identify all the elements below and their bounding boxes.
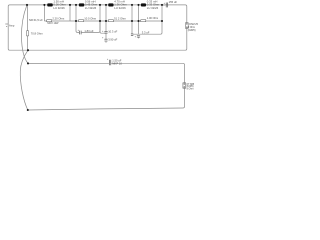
wire long curved return bottom rail to lower loop	[20, 50, 28, 110]
wire outer loop upper circuit	[8, 5, 187, 50]
svg-text:3.3 uF: 3.3 uF	[142, 30, 150, 34]
wire long curved feed upper node A to lower loop	[21, 5, 28, 64]
resistor R5 shunt left	[27, 31, 29, 36]
wire notch loop section4 left lead	[131, 21, 133, 34]
svg-text:1.00 Ohm: 1.00 Ohm	[147, 16, 158, 20]
node dot rail2 x132	[131, 20, 133, 22]
label C5	[164, 0, 178, 5]
capacitor C3b shunt section3	[104, 39, 107, 41]
node dot x76	[75, 4, 77, 6]
wire top rail	[27, 4, 165, 6]
node dot rail2 x100	[99, 20, 101, 22]
node dot x132	[131, 4, 133, 6]
wire vertical bridge x132	[131, 5, 133, 21]
wire lower loop top	[28, 63, 185, 82]
capacitor C2 notch section2	[80, 31, 82, 35]
capacitor C6 lower loop	[109, 60, 110, 66]
svg-text:10.3 uF: 10.3 uF	[108, 29, 117, 33]
node A dot top rail x27	[26, 4, 28, 6]
label SP1	[188, 23, 199, 32]
label SP2	[186, 84, 194, 91]
wire notch loop section4	[133, 21, 162, 38]
inductor L1	[47, 3, 53, 6]
svg-text:3.90 uF: 3.90 uF	[108, 38, 117, 42]
wire shunt section3 cap leads	[105, 21, 107, 43]
wire vertical bridge x162	[161, 5, 163, 21]
wire vertical bridge x70	[69, 5, 71, 21]
resistor R2	[79, 20, 84, 22]
wire lower loop right lower and bottom	[28, 88, 185, 110]
label L3	[114, 0, 127, 10]
label C3b	[102, 36, 118, 41]
svg-text:MOX 10W: MOX 10W	[47, 22, 59, 25]
wire vertical bridge x106	[105, 5, 107, 21]
label C6	[107, 58, 122, 66]
wire amp ticks	[5, 24, 8, 27]
inductor L3	[108, 3, 113, 6]
capacitor C4a notch section4 left	[131, 34, 133, 35]
inductor L2	[79, 3, 85, 6]
capacitor C5 series top rail	[166, 3, 167, 8]
label R1	[47, 16, 65, 25]
wire second rail y21	[44, 20, 162, 22]
svg-text:155 uF: 155 uF	[169, 0, 178, 4]
svg-text:Amp: Amp	[9, 23, 15, 27]
capacitor C4b notch section4	[137, 36, 140, 38]
node dot lower loop left top	[27, 62, 29, 64]
node dot x70	[69, 4, 71, 6]
label C3a	[102, 29, 118, 33]
resistor R4	[141, 20, 146, 22]
label L1	[53, 0, 66, 10]
wire series cap leads top rail	[162, 4, 169, 6]
wire vertical bridge x76	[75, 5, 77, 21]
resistor R1	[47, 20, 52, 22]
label L4	[147, 0, 160, 10]
node dot x100	[99, 4, 101, 6]
node dot x44.4	[43, 4, 45, 6]
node dot rail2 x138.5	[137, 20, 139, 22]
node dot x162	[161, 4, 163, 6]
wire vertical bridge x44.4	[43, 5, 45, 21]
wire shunt branch x27.6 lower lead	[27, 36, 29, 50]
svg-text:10.0 Ohm: 10.0 Ohm	[84, 16, 97, 20]
svg-text:LU 32/26: LU 32/26	[114, 6, 126, 10]
node dot x106	[105, 4, 107, 6]
label C2	[78, 29, 94, 33]
node dot rail2 x76	[75, 20, 77, 22]
resistor R3	[108, 20, 113, 22]
svg-text:(D2R5): (D2R5)	[188, 29, 196, 32]
svg-text:LU 32/26: LU 32/26	[147, 6, 159, 10]
wire notch cap loop section2	[76, 21, 100, 32]
svg-text:NR 61,5 uF: NR 61,5 uF	[29, 18, 43, 22]
node dot bottom rail x28	[27, 49, 29, 51]
label L2	[85, 0, 98, 10]
node dot rail2 x162	[161, 20, 163, 22]
speaker driver SP1 right edge upper	[186, 23, 189, 29]
svg-text:1.83 uF: 1.83 uF	[84, 29, 93, 33]
svg-text:LU 32/26: LU 32/26	[85, 6, 97, 10]
svg-text:70.8 Ohm: 70.8 Ohm	[31, 32, 44, 36]
svg-text:51.2 Ohm: 51.2 Ohm	[114, 16, 127, 20]
svg-text:8 Ohm: 8 Ohm	[187, 88, 194, 90]
wire shunt branch x27.6 upper lead	[27, 5, 29, 31]
wire shunt section3 jog	[100, 21, 106, 33]
capacitor C3a shunt section3	[104, 31, 107, 33]
svg-text:LU 32/26: LU 32/26	[53, 6, 65, 10]
label C4	[135, 30, 150, 38]
wire vertical bridge x138.5	[138, 5, 140, 21]
wire vertical bridge x100	[99, 5, 101, 21]
svg-text:2.20 Ohm: 2.20 Ohm	[52, 16, 65, 20]
node dot x138.5	[137, 4, 139, 6]
node dot lower loop left bottom	[27, 109, 29, 111]
node dot rail2 x106	[105, 20, 107, 22]
inductor L4	[141, 3, 146, 6]
svg-text:MKP 10: MKP 10	[112, 61, 122, 65]
speaker driver SP2 lower loop right	[183, 83, 186, 88]
